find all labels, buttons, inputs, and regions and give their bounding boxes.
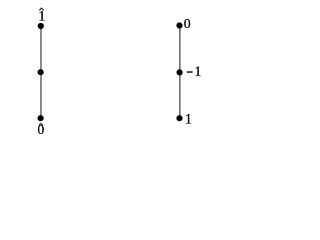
wire left chain edge 1hat to middle (40, 26, 42, 72)
node middle (unlabeled left vertex) (38, 69, 44, 75)
label hat accent of 1hat (39, 8, 43, 10)
label -1 of middle right vertex: minus stroke (187, 71, 193, 73)
svg-text:0: 0 (38, 122, 45, 137)
node -1 (middle right vertex) (177, 69, 183, 75)
wire right chain edge 0 to -1 (179, 26, 181, 73)
svg-text:0: 0 (184, 16, 191, 31)
svg-text:1: 1 (185, 111, 192, 127)
node 0hat (bottom left vertex) (38, 115, 44, 121)
node 0 (top right vertex) (176, 22, 182, 28)
node 1hat (top left vertex) (38, 23, 44, 29)
svg-text:1: 1 (194, 64, 201, 80)
node 1 (bottom right vertex) (176, 115, 182, 121)
wire right chain edge -1 to 1 (179, 72, 181, 118)
label hat accent of 0hat (39, 123, 43, 125)
svg-text:1: 1 (38, 9, 45, 25)
wire left chain edge middle to 0hat (40, 72, 42, 118)
